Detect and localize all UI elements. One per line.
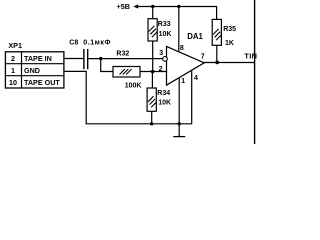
op-amp DA1 [163,32,205,85]
junction R34 on ground rail [150,122,153,125]
wire GND row to ground rail [64,71,192,124]
junction node signal after C8 [99,57,102,60]
wire C8 to pin 3 [88,58,163,60]
wire right frame border [254,0,256,144]
svg-text:10K: 10K [158,99,171,106]
svg-text:TAPE IN: TAPE IN [24,54,52,63]
svg-text:100K: 100K [125,82,142,89]
wire R35 bottom lead [216,45,218,62]
connector XP1 [5,41,64,88]
svg-text:DA1: DA1 [187,32,203,41]
wire TAPE IN to C8 [64,58,84,60]
svg-text:4: 4 [194,75,198,82]
wire top +5V rail [138,6,218,8]
junction top rail R33 [151,5,154,8]
svg-text:GND: GND [24,66,40,75]
svg-text:TAPE OUT: TAPE OUT [24,78,60,87]
node +5B supply arrow [117,2,139,11]
wire signal node down to R32 [101,59,113,72]
svg-text:0.1мкФ: 0.1мкФ [83,39,111,46]
wire output pin 7 to TIN [204,62,255,64]
junction pin2 node [151,70,155,74]
svg-text:R33: R33 [158,21,171,28]
svg-text:7: 7 [201,54,205,61]
junction ground symbol on rail [178,122,181,125]
junction top rail pin8 [177,5,180,8]
svg-text:1: 1 [11,66,15,75]
wire pin 1 to ground rail [178,78,180,124]
svg-text:+5B: +5B [117,2,130,11]
resistor R33 [148,19,171,41]
resistor R32 [113,51,141,90]
svg-text:10K: 10K [159,31,172,38]
svg-text:8: 8 [180,45,184,52]
resistor R35 [212,19,236,47]
wire pin2 node to R34 [151,72,153,89]
svg-text:R34: R34 [157,90,170,97]
svg-text:2: 2 [159,66,163,73]
capacitor C8 [69,39,111,69]
svg-text:R32: R32 [116,51,129,58]
wire +5V rail drop to R35 [216,7,218,20]
resistor R34 [147,88,171,111]
wire op-amp pin 8 power lead [178,7,180,53]
svg-text:2: 2 [11,54,15,63]
svg-text:1K: 1K [225,40,234,47]
ground [173,124,185,137]
svg-text:XP1: XP1 [8,41,22,50]
svg-text:1: 1 [181,78,185,85]
wire R33 top lead [152,7,154,19]
wire R32 to pin 2 [140,71,167,73]
svg-text:R35: R35 [223,26,236,33]
wire R33 bottom lead to pin2 node [152,41,154,72]
wire R34 bottom lead [151,111,153,124]
svg-text:C8: C8 [69,39,78,46]
svg-text:3: 3 [159,50,163,57]
svg-text:10: 10 [9,78,17,87]
junction output R35 [215,61,219,65]
